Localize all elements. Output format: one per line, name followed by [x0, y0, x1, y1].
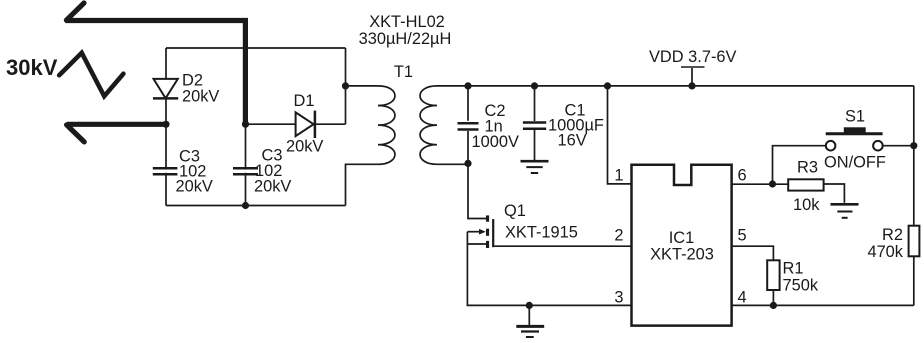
svg-text:20kV: 20kV — [182, 88, 219, 106]
svg-text:6: 6 — [738, 167, 747, 185]
svg-text:Q1: Q1 — [504, 202, 526, 220]
svg-text:750k: 750k — [783, 277, 819, 295]
svg-text:4: 4 — [738, 289, 747, 307]
svg-text:3: 3 — [614, 289, 623, 307]
svg-text:S1: S1 — [845, 108, 865, 126]
svg-text:330µH/22µH: 330µH/22µH — [359, 30, 452, 48]
svg-text:XKT-1915: XKT-1915 — [505, 224, 578, 242]
svg-text:XKT-203: XKT-203 — [650, 246, 714, 264]
svg-text:10k: 10k — [793, 196, 820, 214]
svg-text:R3: R3 — [797, 159, 818, 177]
svg-text:XKT-HL02: XKT-HL02 — [369, 13, 445, 31]
svg-text:VDD 3.7-6V: VDD 3.7-6V — [649, 48, 737, 66]
svg-text:5: 5 — [738, 227, 747, 245]
svg-text:20kV: 20kV — [176, 178, 213, 196]
svg-text:1: 1 — [614, 167, 623, 185]
svg-text:R1: R1 — [783, 260, 804, 278]
svg-text:T1: T1 — [394, 63, 413, 81]
svg-text:R2: R2 — [882, 226, 903, 244]
svg-text:ON/OFF: ON/OFF — [824, 154, 886, 172]
svg-text:470k: 470k — [867, 243, 903, 261]
svg-text:20kV: 20kV — [254, 178, 291, 196]
svg-text:1000V: 1000V — [472, 133, 519, 151]
svg-text:16V: 16V — [558, 132, 587, 150]
svg-text:2: 2 — [614, 227, 623, 245]
svg-text:IC1: IC1 — [669, 229, 695, 247]
svg-text:D1: D1 — [294, 92, 315, 110]
svg-text:20kV: 20kV — [286, 138, 323, 156]
svg-text:30kV: 30kV — [6, 55, 58, 80]
